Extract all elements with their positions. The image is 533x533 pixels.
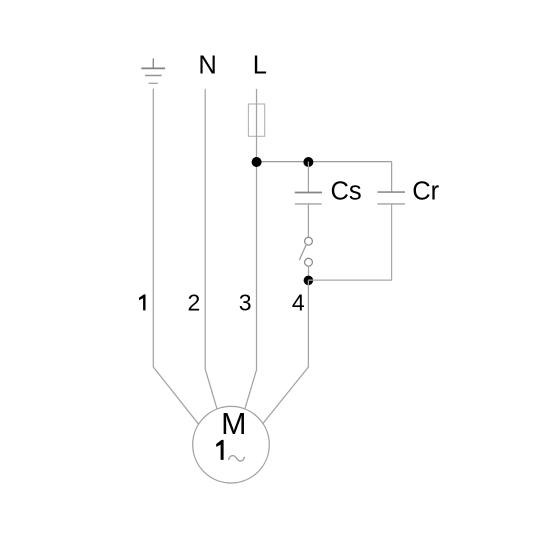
switch arm bbox=[299, 245, 306, 260]
motor label phase tilde bbox=[229, 456, 245, 461]
wire bbox=[257, 161, 392, 163]
switch contact circle top bbox=[305, 237, 313, 245]
svg-text:4: 4 bbox=[292, 290, 305, 316]
wire bbox=[308, 279, 392, 281]
wire bbox=[205, 89, 217, 409]
node junction dot 2 bbox=[303, 157, 313, 167]
wire bbox=[263, 280, 309, 423]
svg-text:2: 2 bbox=[188, 290, 201, 316]
svg-text:Cs: Cs bbox=[331, 178, 362, 206]
wire bbox=[256, 89, 258, 104]
svg-text:M: M bbox=[221, 407, 246, 441]
node junction dot 3 bbox=[304, 276, 314, 286]
svg-text:L: L bbox=[253, 52, 267, 80]
wire bbox=[245, 136, 257, 409]
wire bbox=[153, 89, 198, 425]
motor label 1 bbox=[216, 440, 223, 460]
ground bbox=[141, 59, 165, 84]
wire bbox=[308, 266, 310, 277]
svg-text:N: N bbox=[198, 52, 216, 80]
wire bbox=[307, 162, 309, 193]
node junction dot 1 bbox=[252, 157, 262, 167]
capacitor Cr bbox=[377, 192, 405, 204]
capacitor Cs bbox=[295, 193, 322, 204]
pin number 1 bbox=[139, 294, 146, 310]
wire bbox=[391, 204, 393, 280]
svg-text:Cr: Cr bbox=[412, 178, 439, 206]
motor M1 bbox=[193, 406, 270, 483]
switch contact circle bottom bbox=[305, 258, 313, 266]
svg-text:3: 3 bbox=[239, 290, 252, 316]
fuse bbox=[248, 104, 264, 136]
wire bbox=[391, 162, 393, 193]
wire bbox=[256, 104, 258, 136]
wire bbox=[307, 204, 309, 238]
